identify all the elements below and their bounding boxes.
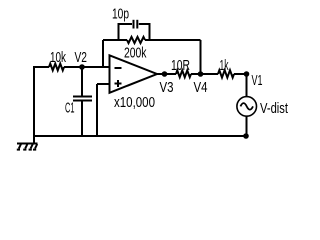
svg-text:V3: V3 <box>160 80 174 96</box>
svg-text:10k: 10k <box>50 50 67 66</box>
svg-text:10p: 10p <box>112 7 129 23</box>
svg-text:V4: V4 <box>194 80 208 96</box>
svg-text:V2: V2 <box>75 50 88 66</box>
svg-text:200k: 200k <box>124 45 147 61</box>
svg-text:V-dist: V-dist <box>260 101 288 117</box>
svg-text:10R: 10R <box>171 58 190 74</box>
svg-text:V1: V1 <box>252 73 263 89</box>
svg-text:x10,000: x10,000 <box>114 95 155 111</box>
svg-text:C1: C1 <box>65 101 75 117</box>
svg-text:1k: 1k <box>220 58 229 74</box>
